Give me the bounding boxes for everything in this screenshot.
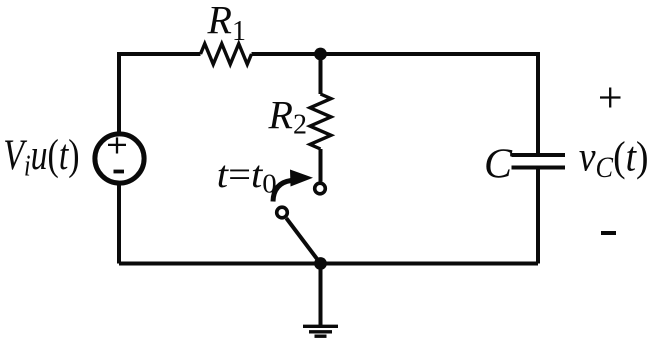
resistor R1 — [201, 44, 252, 65]
voltage source circle U1 — [95, 134, 144, 183]
ground bar 3 — [315, 335, 327, 338]
node dot top (R1/R2 junction) — [314, 48, 327, 61]
capacitor C plates — [512, 155, 566, 168]
wire top-left from source to R1 — [119, 54, 201, 133]
switch arrow head — [290, 170, 313, 187]
ground stem — [319, 264, 323, 327]
ground bar 2 — [309, 330, 332, 333]
label vC(t) — [579, 134, 649, 185]
wire left bottom stub from source — [117, 184, 121, 264]
ground bar 1 — [303, 325, 338, 328]
wire R2 bottom stub to switch — [319, 149, 323, 182]
capacitor minus polarity — [601, 231, 616, 235]
voltage source plus sign — [108, 137, 126, 153]
node dot bottom (switch/ground junction) — [314, 257, 327, 270]
svg-text:vC(t): vC(t) — [579, 134, 649, 185]
svg-text:C: C — [484, 142, 513, 188]
wire bottom — [119, 262, 538, 266]
switch terminal lower — [277, 207, 288, 218]
label t=t0 switch time — [217, 153, 277, 199]
svg-text:Viu(t): Viu(t) — [3, 131, 79, 182]
wire R2 top stub — [319, 54, 323, 94]
wire right bottom stub from capacitor — [536, 168, 540, 264]
wire top-right from R1 to capacitor — [252, 54, 539, 155]
voltage source minus sign — [114, 170, 125, 174]
label Vi u(t) source — [3, 131, 79, 182]
capacitor plus polarity — [600, 88, 621, 108]
resistor R2 — [310, 94, 331, 149]
switch blade — [286, 218, 320, 263]
switch actuation arrow arc — [273, 181, 291, 202]
switch terminal upper (to R2) — [315, 183, 326, 194]
